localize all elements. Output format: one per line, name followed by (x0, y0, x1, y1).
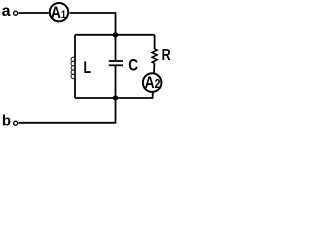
wire A2 to bottom rail (75, 93, 153, 98)
label L (84, 59, 92, 77)
label R (162, 47, 172, 65)
svg-text:L: L (84, 59, 92, 77)
wire capacitor branch upper (115, 35, 117, 61)
svg-text:a: a (2, 3, 11, 20)
wire top rail to R (154, 35, 156, 49)
label C (128, 56, 138, 75)
capacitor C (109, 61, 123, 65)
wire R to A2 (153, 63, 155, 73)
ammeter A2 (143, 73, 162, 92)
wire A1 to top node (69, 13, 115, 35)
wire capacitor branch lower (115, 66, 117, 98)
wire bottom node to b (18, 98, 115, 123)
svg-text:b: b (2, 113, 11, 130)
wire top rail (75, 34, 155, 36)
terminal b (14, 121, 18, 125)
wire left branch (74, 35, 76, 98)
resistor R (152, 49, 157, 63)
inductor L (71, 57, 75, 79)
terminal a (14, 11, 18, 15)
ammeter A1 (50, 3, 68, 22)
node junction top (113, 32, 118, 37)
svg-text:C: C (128, 56, 138, 75)
node junction bottom (113, 95, 118, 100)
wire a to A1 (18, 12, 48, 14)
svg-text:R: R (162, 47, 172, 65)
